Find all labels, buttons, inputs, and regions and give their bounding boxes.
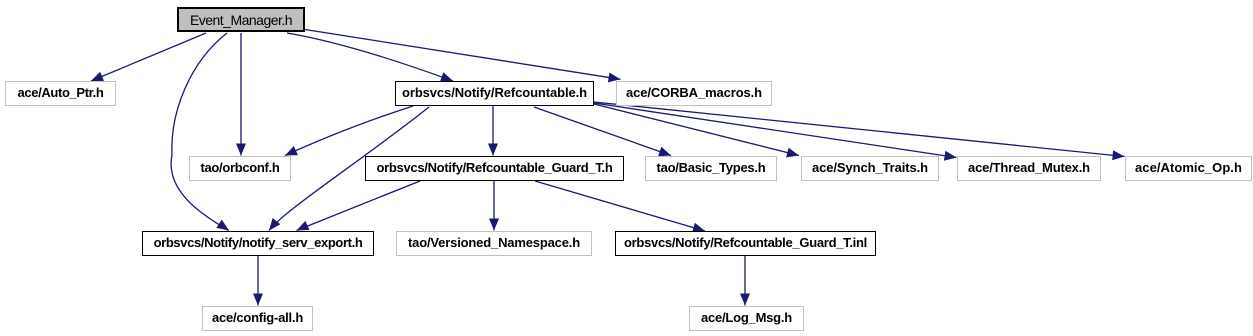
edge orbsvcs/Notify/Refcountable.h -> ace/Thread_Mutex.h <box>594 103 957 161</box>
node orbsvcs/Notify/Refcountable.h <box>395 81 594 106</box>
edge orbsvcs/Notify/notify_serv_export.h -> ace/config-all.h <box>253 256 263 306</box>
edge orbsvcs/Notify/Refcountable_Guard_T.h -> orbsvcs/Notify/notify_serv_export.h <box>297 181 421 231</box>
edge orbsvcs/Notify/Refcountable.h -> ace/Synch_Traits.h <box>594 104 799 157</box>
node orbsvcs/Notify/Refcountable_Guard_T.inl <box>615 231 876 256</box>
node Event_Manager.h <box>177 7 305 32</box>
edge orbsvcs/Notify/Refcountable.h -> tao/Basic_Types.h <box>534 107 671 156</box>
edge orbsvcs/Notify/Refcountable.h -> orbsvcs/Notify/notify_serv_export.h <box>269 107 429 231</box>
edge orbsvcs/Notify/Refcountable.h -> orbsvcs/Notify/Refcountable_Guard_T.h <box>488 106 498 156</box>
node tao/Basic_Types.h <box>645 156 777 181</box>
node ace/CORBA_macros.h <box>616 81 772 106</box>
node ace/Auto_Ptr.h <box>5 81 116 106</box>
edge orbsvcs/Notify/Refcountable_Guard_T.h -> tao/Versioned_Namespace.h <box>489 181 499 231</box>
node orbsvcs/Notify/notify_serv_export.h <box>142 231 374 256</box>
edge orbsvcs/Notify/Refcountable_Guard_T.h -> orbsvcs/Notify/Refcountable_Guard_T.inl <box>535 181 705 232</box>
node tao/orbconf.h <box>189 156 291 181</box>
node orbsvcs/Notify/Refcountable_Guard_T.h <box>365 156 624 181</box>
edge Event_Manager.h -> ace/Auto_Ptr.h <box>91 33 206 81</box>
node ace/Log_Msg.h <box>689 306 804 331</box>
edge Event_Manager.h -> orbsvcs/Notify/notify_serv_export.h <box>171 33 229 231</box>
node ace/Thread_Mutex.h <box>957 156 1101 181</box>
edge orbsvcs/Notify/Refcountable.h -> ace/Atomic_Op.h <box>594 102 1125 160</box>
edge Event_Manager.h -> tao/orbconf.h <box>236 33 246 156</box>
node tao/Versioned_Namespace.h <box>396 231 592 256</box>
edge orbsvcs/Notify/Refcountable.h -> tao/orbconf.h <box>285 106 413 156</box>
edge Event_Manager.h -> orbsvcs/Notify/Refcountable.h <box>287 33 453 82</box>
node ace/Atomic_Op.h <box>1125 156 1252 181</box>
node ace/config-all.h <box>202 306 313 331</box>
edge orbsvcs/Notify/Refcountable_Guard_T.inl -> ace/Log_Msg.h <box>740 256 750 306</box>
node ace/Synch_Traits.h <box>801 156 939 181</box>
edge Event_Manager.h -> ace/CORBA_macros.h <box>305 30 621 83</box>
